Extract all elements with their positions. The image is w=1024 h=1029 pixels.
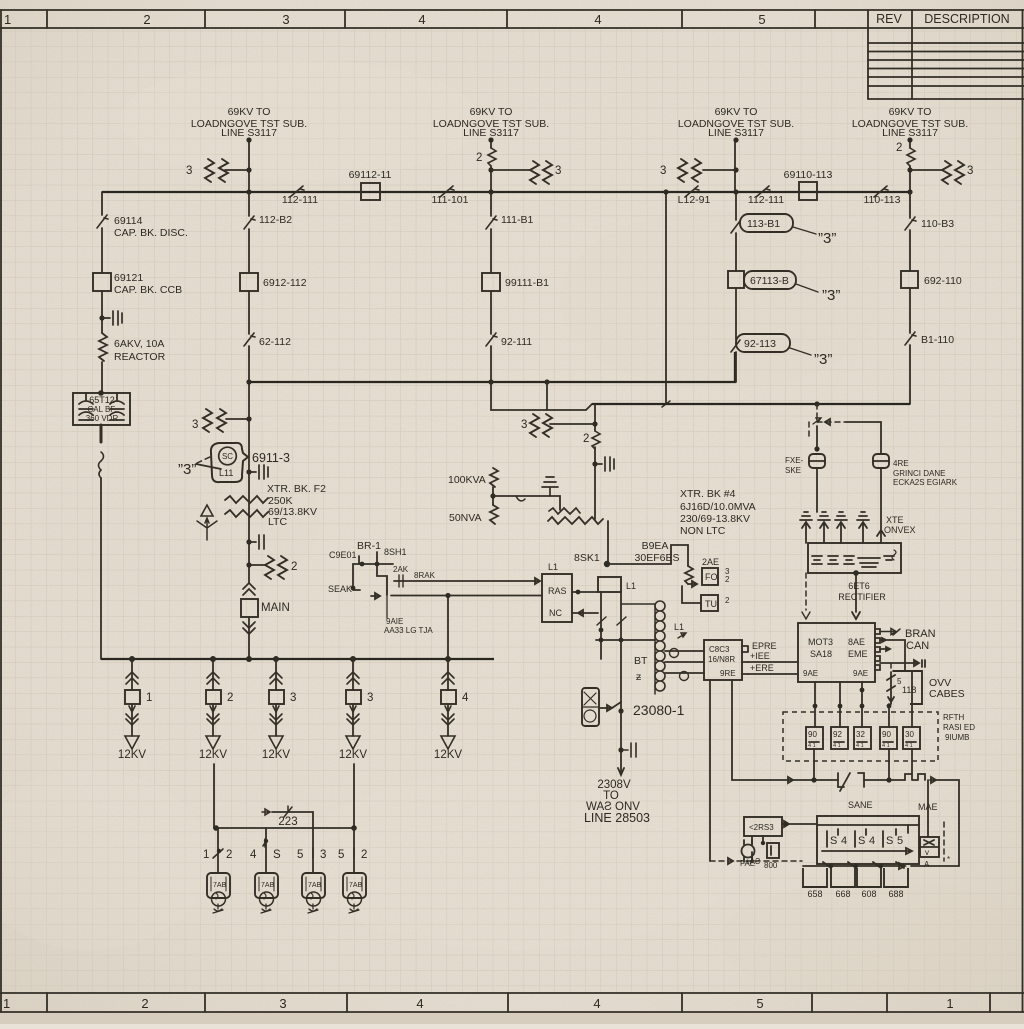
switch 92-111 bbox=[486, 333, 532, 348]
wire: control bus bbox=[732, 777, 959, 866]
coil CT winding bbox=[621, 601, 686, 694]
wire: feeder 4 drop bbox=[896, 137, 915, 194]
svg-text:688: 688 bbox=[888, 889, 903, 899]
svg-text:9AIE: 9AIE bbox=[386, 617, 403, 626]
svg-text:2: 2 bbox=[896, 142, 902, 154]
svg-text:112-111: 112-111 bbox=[282, 194, 318, 206]
svg-text:69KV TO: 69KV TO bbox=[228, 106, 271, 118]
arrester feeder 4 bbox=[910, 161, 973, 184]
switch 223 bbox=[262, 806, 313, 828]
arrester at feeder1 bus2 bbox=[192, 409, 252, 432]
svg-text:LINE S3117: LINE S3117 bbox=[882, 127, 938, 139]
svg-text:CABES: CABES bbox=[929, 688, 965, 700]
svg-text:110-113: 110-113 bbox=[864, 194, 901, 206]
switch 62-112 bbox=[244, 333, 291, 348]
svg-text:8RAK: 8RAK bbox=[414, 571, 436, 580]
label BT bbox=[634, 655, 648, 683]
svg-text:REACTOR: REACTOR bbox=[114, 351, 166, 363]
feeder breaker 5 bbox=[434, 659, 469, 761]
svg-text:C8C3: C8C3 bbox=[709, 645, 730, 654]
svg-text:5: 5 bbox=[758, 12, 765, 27]
svg-text:3: 3 bbox=[367, 692, 373, 704]
switch 111-101 (bus section 2) bbox=[432, 186, 469, 206]
svg-text:LTC: LTC bbox=[268, 516, 287, 528]
svg-text:XTE: XTE bbox=[886, 515, 904, 525]
svg-text:668: 668 bbox=[835, 889, 850, 899]
resistor 100KVA bbox=[448, 468, 498, 487]
transformer bank box bbox=[808, 543, 901, 573]
box OVV CABES bbox=[893, 671, 965, 704]
resistor to FO bbox=[685, 566, 697, 587]
node 23080-1 bbox=[582, 688, 685, 726]
svg-text:4 1: 4 1 bbox=[833, 743, 841, 749]
svg-text:9RE: 9RE bbox=[720, 669, 736, 678]
svg-text:92: 92 bbox=[833, 730, 842, 739]
svg-text:3: 3 bbox=[279, 996, 286, 1011]
svg-text:FXE-: FXE- bbox=[785, 456, 804, 465]
svg-text:62-112: 62-112 bbox=[259, 336, 291, 348]
fuse FXE SKE bbox=[785, 454, 825, 475]
tag 92-113 bbox=[731, 334, 832, 368]
label EPRE bbox=[752, 641, 777, 651]
switch 110-113 (bus section 4) bbox=[864, 186, 901, 206]
svg-text:2: 2 bbox=[476, 152, 482, 164]
motor 4 bbox=[343, 873, 366, 913]
labels SANE MAE bbox=[848, 800, 938, 812]
svg-text:TU: TU bbox=[705, 599, 717, 609]
svg-text:100KVA: 100KVA bbox=[448, 474, 486, 486]
transformer XTR BK 4 windings bbox=[548, 508, 608, 564]
svg-text:5: 5 bbox=[756, 996, 763, 1011]
label XTR BK 4 bbox=[680, 488, 756, 537]
motor feeder contact 2 bbox=[250, 828, 281, 873]
breaker 69110-113 bbox=[784, 169, 833, 200]
relay box A bbox=[920, 837, 939, 869]
svg-text:112-B2: 112-B2 bbox=[259, 214, 292, 226]
svg-text:1: 1 bbox=[203, 849, 209, 861]
svg-text:4 1: 4 1 bbox=[882, 743, 890, 749]
wire: dashed rectifier feed 2 bbox=[802, 573, 810, 619]
svg-text:˂2RS3: ˂2RS3 bbox=[749, 823, 774, 832]
svg-text:3: 3 bbox=[555, 165, 561, 177]
svg-text:EME: EME bbox=[848, 649, 868, 659]
svg-text:BT: BT bbox=[634, 655, 648, 667]
svg-text:LINE S3117: LINE S3117 bbox=[463, 127, 519, 139]
svg-text:*: * bbox=[947, 855, 950, 864]
svg-text:CAP. BK. DISC.: CAP. BK. DISC. bbox=[114, 227, 188, 239]
svg-text:69121: 69121 bbox=[114, 272, 143, 284]
svg-text:3: 3 bbox=[320, 849, 326, 861]
svg-text:608: 608 bbox=[861, 889, 876, 899]
breaker 69121 CAP BK CCB bbox=[93, 272, 182, 296]
svg-text:L1: L1 bbox=[674, 622, 684, 632]
breaker + tag 67113-B bbox=[728, 271, 840, 304]
svg-text:69KV TO: 69KV TO bbox=[889, 106, 932, 118]
relay box RAS/NC bbox=[542, 562, 572, 622]
svg-text:MOT3: MOT3 bbox=[808, 637, 833, 647]
svg-text:7AB: 7AB bbox=[308, 882, 322, 889]
node: 69kV line 1 label bbox=[191, 106, 307, 139]
svg-text:4: 4 bbox=[418, 12, 425, 27]
svg-text:9IUMB: 9IUMB bbox=[945, 733, 969, 742]
node: 69kV line 3 label bbox=[678, 106, 794, 139]
motor SC L11 6911-3 bbox=[178, 443, 290, 482]
motor feeder contact 1 bbox=[203, 828, 232, 873]
svg-text:4 1: 4 1 bbox=[905, 743, 913, 749]
svg-text:230/69-13.8KV: 230/69-13.8KV bbox=[680, 513, 750, 525]
svg-text:2: 2 bbox=[291, 561, 297, 573]
svg-text:SEAK: SEAK bbox=[328, 584, 352, 594]
fuse FO bbox=[702, 557, 730, 585]
wire: 69kV bus 2 (middle tie) bbox=[246, 352, 735, 385]
svg-text:LINE 28503: LINE 28503 bbox=[584, 811, 650, 825]
capacitor tap on cap bank bbox=[99, 311, 122, 325]
annunciator box S4S4S5 bbox=[817, 816, 919, 864]
wire: 230kV transformer primary lead bbox=[592, 404, 597, 519]
svg-text:8SH1: 8SH1 bbox=[384, 547, 407, 557]
transistor FAE bbox=[740, 840, 755, 868]
svg-text:30: 30 bbox=[905, 730, 914, 739]
relay unit 3 bbox=[854, 727, 871, 749]
svg-text:30EF6ES: 30EF6ES bbox=[635, 552, 680, 564]
svg-text:S: S bbox=[830, 835, 837, 847]
switch 112-111 (bus section 1) bbox=[282, 186, 318, 206]
motor 2 bbox=[255, 873, 278, 913]
wire: cap bank to 12kV bus bbox=[99, 425, 104, 659]
svg-text:6911-3: 6911-3 bbox=[252, 451, 290, 465]
svg-text:SA18: SA18 bbox=[810, 649, 832, 659]
svg-text:6AKV, 10A: 6AKV, 10A bbox=[114, 338, 164, 350]
wire: station service dashed drop bbox=[813, 404, 821, 512]
svg-text:FO: FO bbox=[705, 572, 718, 582]
node: 2308V exit label bbox=[584, 779, 650, 825]
capacitor tap 2 on feeder1 bbox=[246, 535, 264, 549]
svg-text:B1-110: B1-110 bbox=[921, 334, 954, 346]
svg-text:99111-B1: 99111-B1 bbox=[505, 277, 549, 289]
switch 112-111 (bus section 3) bbox=[748, 186, 784, 206]
svg-text:4: 4 bbox=[416, 996, 423, 1011]
node: 69kV line 2 label bbox=[433, 106, 549, 139]
svg-text:S: S bbox=[886, 835, 893, 847]
svg-text:67113-B: 67113-B bbox=[750, 275, 789, 287]
wire: feeder2 jog to transformer chain bbox=[491, 382, 592, 410]
wire: feeder 2 drop bbox=[476, 137, 496, 194]
svg-text:4: 4 bbox=[869, 835, 875, 847]
wire: feeder2 extension to 223 bus bbox=[213, 764, 215, 828]
transformer bank caps bbox=[800, 512, 869, 543]
svg-text:GRINCI DANE: GRINCI DANE bbox=[893, 469, 945, 478]
svg-text:2: 2 bbox=[361, 849, 367, 861]
svg-text:XTR. BK. F2: XTR. BK. F2 bbox=[267, 483, 326, 495]
wire: feeder2 chain below bus bbox=[490, 192, 492, 382]
breaker MAIN bbox=[241, 583, 290, 659]
title block REV/DESCRIPTION table bbox=[868, 28, 1024, 99]
wire: ground tie at 547 bbox=[546, 382, 548, 410]
svg-text:CAP. BK. CCB: CAP. BK. CCB bbox=[114, 284, 182, 296]
svg-text:12KV: 12KV bbox=[434, 749, 462, 761]
svg-text:111-B1: 111-B1 bbox=[501, 214, 533, 226]
breaker 99111-B1 bbox=[482, 273, 549, 291]
svg-text:”3”: ”3” bbox=[814, 351, 832, 368]
label 6ET6 RECTIFIER bbox=[838, 581, 886, 602]
contact chain 118 bbox=[887, 663, 916, 704]
relay unit 2 bbox=[831, 727, 848, 749]
ground at PT branch bbox=[493, 477, 560, 510]
svg-text:BR-1: BR-1 bbox=[357, 540, 381, 552]
svg-text:MAIN: MAIN bbox=[261, 602, 290, 614]
capacitor bank 65T12 (dashed box) bbox=[73, 390, 130, 425]
svg-text:111-101: 111-101 bbox=[432, 194, 469, 206]
svg-text:69112-11: 69112-11 bbox=[349, 169, 392, 181]
breaker 69112-11 bbox=[349, 169, 392, 200]
svg-text:3: 3 bbox=[192, 419, 198, 431]
svg-text:6912-112: 6912-112 bbox=[263, 277, 307, 289]
svg-text:9AE: 9AE bbox=[853, 669, 868, 678]
svg-text:C9E01: C9E01 bbox=[329, 550, 357, 560]
node 8SK1 bbox=[574, 552, 610, 567]
arrester 2 on feeder1 bbox=[246, 556, 297, 579]
relay unit 5 bbox=[903, 727, 920, 749]
wire: dashed control tie bbox=[710, 857, 802, 866]
breaker 6912-112 bbox=[240, 273, 307, 291]
fuse blocks on control bus bbox=[905, 774, 925, 780]
motor 3 bbox=[302, 873, 325, 913]
svg-text:118: 118 bbox=[902, 685, 916, 695]
svg-text:112-111: 112-111 bbox=[748, 194, 784, 206]
svg-text:2AK: 2AK bbox=[393, 565, 409, 574]
wire: middle 404 tie line bbox=[592, 401, 910, 406]
svg-text:3: 3 bbox=[521, 419, 527, 431]
svg-text:8AE: 8AE bbox=[848, 637, 865, 647]
switch 111-B1 bbox=[486, 214, 533, 229]
wire: L to TU bbox=[682, 586, 700, 603]
wire: feeder 3 drop bbox=[733, 137, 738, 194]
tag 113-B1 bbox=[731, 214, 836, 247]
svg-text:1: 1 bbox=[946, 996, 953, 1011]
svg-text:90: 90 bbox=[808, 730, 817, 739]
svg-text:SANE: SANE bbox=[848, 800, 873, 810]
wire: RAS outputs bbox=[572, 590, 598, 616]
svg-text:4RE: 4RE bbox=[893, 459, 909, 468]
wire: feeder4 extension to 223 bus bbox=[353, 764, 355, 828]
svg-text:50NVA: 50NVA bbox=[449, 512, 482, 524]
svg-text:2AE: 2AE bbox=[702, 557, 719, 567]
wire: 69kV bus bbox=[102, 191, 910, 193]
svg-text:69KV TO: 69KV TO bbox=[470, 106, 513, 118]
motor 1 bbox=[207, 873, 230, 913]
svg-text:BRAN: BRAN bbox=[905, 628, 936, 640]
wire: tab line with terminator bbox=[880, 660, 925, 667]
svg-text:2: 2 bbox=[226, 849, 232, 861]
capacitor tap at 464 bbox=[595, 457, 614, 471]
svg-text:7AB: 7AB bbox=[213, 882, 227, 889]
arrester feeder 1 bbox=[186, 159, 249, 182]
breaker cubicle 2 bbox=[831, 868, 855, 899]
relay unit 4 bbox=[880, 727, 897, 749]
motor feeder contact 3 bbox=[297, 828, 326, 873]
svg-text:4: 4 bbox=[841, 835, 847, 847]
svg-text:ƶ: ƶ bbox=[636, 671, 641, 683]
svg-text:23080-1: 23080-1 bbox=[633, 702, 685, 718]
arrester feeder 2 bbox=[491, 161, 561, 184]
svg-text:RASI ED: RASI ED bbox=[943, 723, 975, 732]
feeder breaker 3 bbox=[262, 659, 296, 761]
wire: feeder4 chain below bus bbox=[909, 192, 911, 404]
svg-text:1: 1 bbox=[4, 12, 11, 27]
breaker cubicle 3 bbox=[857, 868, 881, 899]
svg-text:658: 658 bbox=[807, 889, 822, 899]
fuse TU bbox=[701, 595, 730, 611]
svg-text:EPRE: EPRE bbox=[752, 641, 777, 651]
svg-text:12KV: 12KV bbox=[339, 749, 367, 761]
svg-text:90: 90 bbox=[882, 730, 891, 739]
label RFTH RASI ED bbox=[943, 713, 975, 742]
wire: C2RS3 left legs bbox=[752, 836, 765, 858]
wire: CAN loop bbox=[880, 638, 905, 671]
svg-text:A: A bbox=[924, 860, 930, 869]
wire: 8SK1 to fuse FO bbox=[607, 545, 688, 566]
fuse 4RE bbox=[873, 454, 958, 487]
svg-text:S: S bbox=[858, 835, 865, 847]
arrester feeder 3 bbox=[660, 159, 735, 182]
wire: BR-1 to RAS (line 1) bbox=[393, 565, 540, 587]
svg-text:ECKA2S EGIARK: ECKA2S EGIARK bbox=[893, 478, 958, 487]
svg-text:2: 2 bbox=[227, 692, 233, 704]
wire: BRAN CAN arrow bbox=[880, 628, 936, 652]
wire: +ERE line bbox=[748, 663, 798, 674]
svg-text:+AƧ: +AƧ bbox=[745, 857, 760, 866]
svg-text:XTR. BK #4: XTR. BK #4 bbox=[680, 488, 736, 500]
feeder breaker 4 bbox=[339, 659, 373, 761]
svg-text:113-B1: 113-B1 bbox=[747, 218, 780, 230]
svg-text:6ET6: 6ET6 bbox=[848, 581, 870, 591]
svg-text:v: v bbox=[925, 848, 929, 857]
svg-text:NC: NC bbox=[549, 608, 562, 618]
svg-text:110-B3: 110-B3 bbox=[921, 218, 954, 230]
wire: relay drops to control bus bbox=[814, 749, 912, 780]
wire: tie from bus to 404 line bbox=[662, 189, 670, 407]
switch 112-B2 bbox=[244, 214, 292, 229]
svg-text:12KV: 12KV bbox=[199, 749, 227, 761]
spark gap on control bus bbox=[838, 773, 864, 791]
svg-text:L12-91: L12-91 bbox=[678, 194, 711, 206]
svg-text:360 VDR: 360 VDR bbox=[86, 414, 119, 423]
svg-text:4: 4 bbox=[462, 692, 469, 704]
svg-text:LINE S3117: LINE S3117 bbox=[221, 127, 277, 139]
CT taps to relay bbox=[665, 649, 704, 681]
svg-text:7AB: 7AB bbox=[349, 882, 363, 889]
reactor 6AKV 10A bbox=[99, 333, 166, 363]
relay CBC3 bbox=[704, 640, 748, 680]
svg-text:RFTH: RFTH bbox=[943, 713, 965, 722]
svg-text:16/N8R: 16/N8R bbox=[708, 655, 735, 664]
svg-text:LINE S3117: LINE S3117 bbox=[708, 127, 764, 139]
relay unit 1 bbox=[806, 727, 823, 749]
capacitor tap below SC bbox=[246, 465, 268, 479]
transformer XTR BK F2 bbox=[225, 483, 326, 528]
svg-text:69110-113: 69110-113 bbox=[784, 169, 833, 181]
svg-text:5: 5 bbox=[297, 849, 303, 861]
svg-text:3: 3 bbox=[290, 692, 296, 704]
wire: 12kV main bus bbox=[101, 656, 494, 662]
svg-text:ONVEX: ONVEX bbox=[884, 525, 916, 535]
svg-text:L1: L1 bbox=[548, 562, 558, 572]
switch L12-91 bbox=[678, 186, 711, 206]
arrester 3 at transformer bbox=[521, 414, 595, 437]
wire: 223 bus bbox=[213, 825, 357, 831]
wire: BR-1 to RAS (line 2) + bus tie bbox=[391, 593, 542, 659]
wire: feeder3 chain below bus bbox=[735, 192, 737, 382]
svg-text:2: 2 bbox=[143, 12, 150, 27]
svg-text:69KV TO: 69KV TO bbox=[715, 106, 758, 118]
svg-text:AA33 LG TJA: AA33 LG TJA bbox=[384, 626, 433, 635]
svg-text:692-110: 692-110 bbox=[924, 275, 962, 287]
breaker cubicle 4 bbox=[884, 868, 908, 899]
svg-text:9AE: 9AE bbox=[803, 669, 818, 678]
svg-text:6J16D/10.0MVA: 6J16D/10.0MVA bbox=[680, 501, 756, 513]
wire: feeder1 through chain bbox=[248, 192, 250, 583]
svg-text:”3”: ”3” bbox=[818, 230, 836, 247]
svg-text:5: 5 bbox=[338, 849, 344, 861]
switch B1-110 bbox=[905, 332, 954, 346]
svg-text:1: 1 bbox=[3, 996, 10, 1011]
label B9EA 30EF6ES bbox=[635, 540, 680, 564]
arrester 2 inline bbox=[583, 431, 600, 449]
svg-text:3: 3 bbox=[967, 165, 973, 177]
svg-text:SC: SC bbox=[222, 452, 233, 461]
wire: feeder 1 drop bbox=[246, 137, 251, 194]
dashed relay group box bbox=[783, 712, 938, 761]
wire: capacitor bank branch bbox=[101, 192, 103, 391]
breaker cubicle 1 bbox=[803, 868, 827, 899]
switch 69114 CAP BK DISC bbox=[97, 215, 188, 239]
svg-text:69114: 69114 bbox=[114, 215, 143, 227]
wire: A-box drop bbox=[927, 780, 929, 837]
svg-text:B9EA: B9EA bbox=[642, 540, 669, 552]
svg-text:RAS: RAS bbox=[548, 586, 567, 596]
wire: CBC3 down legs bbox=[710, 680, 732, 861]
ground delta on XTR F2 bbox=[197, 505, 217, 540]
relay BR-1 group bbox=[328, 540, 407, 618]
svg-text:CAN: CAN bbox=[906, 640, 929, 652]
svg-text:S: S bbox=[273, 849, 281, 861]
control box C2RS3 bbox=[744, 817, 816, 836]
svg-text:”3”: ”3” bbox=[178, 461, 196, 478]
svg-text:3: 3 bbox=[282, 12, 289, 27]
label XTE ONVEX bbox=[884, 515, 916, 535]
contactor block at 598-621 bbox=[596, 577, 655, 659]
svg-text:+IEE: +IEE bbox=[750, 651, 770, 661]
svg-text:5: 5 bbox=[897, 835, 903, 847]
svg-text:4: 4 bbox=[250, 849, 257, 861]
svg-text:”3”: ”3” bbox=[822, 287, 840, 304]
resistor 50NVA bbox=[449, 487, 498, 524]
svg-text:12KV: 12KV bbox=[262, 749, 290, 761]
svg-text:SKE: SKE bbox=[785, 466, 801, 475]
wire: rectifier feed bbox=[852, 570, 860, 619]
wire: dashed right tie bbox=[944, 822, 950, 864]
svg-text:NON LTC: NON LTC bbox=[680, 525, 726, 537]
wire: 4RE to bank bbox=[877, 468, 885, 543]
feeder breaker 2 bbox=[199, 659, 233, 761]
svg-text:+ERE: +ERE bbox=[750, 663, 774, 673]
wire: relay panel output drops bbox=[813, 671, 912, 727]
breaker 692-110 bbox=[901, 271, 962, 288]
wire: +IEE line bbox=[748, 651, 798, 662]
svg-text:3: 3 bbox=[186, 165, 192, 177]
svg-text:7AB: 7AB bbox=[261, 882, 275, 889]
svg-text:223: 223 bbox=[278, 816, 297, 828]
